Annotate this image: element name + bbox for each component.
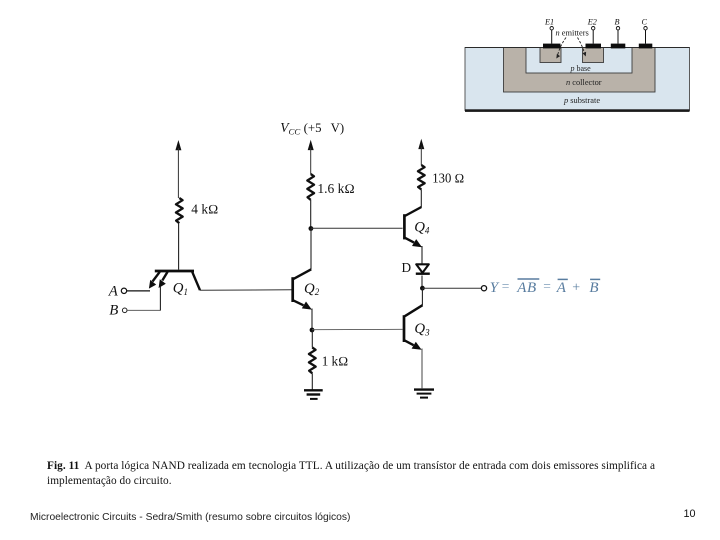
wire Q2 emitter down to node [311,309,313,331]
Q1 base bar [155,270,194,273]
label n collector [566,78,602,87]
svg-text:(+5: (+5 [304,121,322,135]
Q1 collector [192,272,200,290]
label Q4 [414,219,430,235]
ground symbol (Q3) [414,390,434,398]
surface line [465,47,690,49]
svg-text:B: B [615,17,620,26]
svg-text:p substrate: p substrate [563,96,600,105]
svg-text:Q2: Q2 [304,281,320,297]
svg-text:4 kΩ: 4 kΩ [191,201,218,216]
label Q1 [173,281,188,297]
input A terminal [108,283,150,299]
svg-text:B: B [109,302,118,318]
page number [684,508,696,520]
svg-text:1.6 kΩ: 1.6 kΩ [317,181,354,196]
lead wire B [616,27,619,44]
wire node down to Q2 collector [310,229,312,270]
svg-text:130 Ω: 130 Ω [432,170,464,185]
svg-text:V): V) [331,121,345,135]
n collector region [504,48,656,93]
footer [30,512,350,523]
svg-text:n emitters: n emitters [556,29,589,38]
output node junction [420,286,425,291]
label Q2 [304,281,320,297]
resistor 4 kOhm [176,198,183,223]
n emitter well 1 [540,48,561,63]
pointer arrow to emitter 2 [578,38,587,57]
contact pad C [639,44,653,49]
label Vcc rail arrow (1.6k) [308,140,314,174]
contact pad B [611,44,626,49]
lead wire E2 [592,27,595,44]
svg-text:p base: p base [570,64,592,73]
value label 1.6 kOhm [317,181,354,196]
p base region [526,48,632,74]
svg-text:E1: E1 [544,17,554,26]
wire node to 1k resistor [311,330,313,348]
svg-text:E2: E2 [587,17,597,26]
wire node to Q4 base [311,227,403,229]
wire node to output terminal [422,287,481,289]
Q3 collector [405,305,423,316]
label p base [570,64,592,73]
Q3 emitter with arrow [404,340,422,350]
pointer arrow to emitter 1 [556,38,566,59]
wire resistor to Q4 collector [420,189,422,207]
resistor 130 Ohm [418,165,425,189]
terminal label B [615,17,620,26]
input B terminal [109,302,160,318]
svg-text:1 kΩ: 1 kΩ [322,354,349,369]
Q2 collector [293,269,311,279]
resistor 1 kOhm [309,348,316,374]
Q2 base bar [291,277,294,302]
wire emitter2 to B [159,287,161,311]
svg-text:Q1: Q1 [173,281,188,297]
svg-text:C: C [642,17,648,26]
svg-text:D: D [402,260,412,275]
Q4 emitter with arrow [405,238,423,248]
label D [402,260,412,275]
vcc arrow output rail (130) [418,139,424,165]
svg-text:=: = [502,279,510,294]
output terminal circle [481,286,486,291]
svg-text:=: = [543,279,551,294]
wire Q3 emitter to ground [421,349,423,389]
diode D [416,264,430,273]
svg-text:B: B [589,280,598,296]
svg-text:Q3: Q3 [414,321,430,337]
svg-text:+: + [572,280,580,295]
terminal label E2 [587,17,597,26]
svg-text:AB: AB [516,280,537,296]
svg-text:n collector: n collector [566,78,602,87]
Q4 collector [405,207,422,216]
label Q3 [414,321,430,337]
lead wire E1 [550,27,553,44]
resistor 1.6 kOhm [307,174,314,200]
Q3 base bar [403,315,406,342]
Q2 emitter with arrow [293,300,312,309]
wire resistor to Q1 base [178,223,180,269]
svg-text:A: A [556,280,567,296]
Q4 base bar [403,214,406,239]
terminal label C [642,17,648,26]
ground symbol (1k) [304,390,323,399]
svg-text:A: A [108,283,119,299]
n emitter well 2 [583,48,604,63]
svg-text:Q4: Q4 [414,219,430,235]
contact pad E1 [543,44,561,49]
wire diode to output node [421,276,423,289]
label p substrate [563,96,600,105]
Q1 emitter 1 [149,272,160,289]
node junction (Q2 emitter / 1k / Q3 base) [310,328,315,333]
value label 4 kOhm [191,201,218,216]
wire resistor to node [310,200,312,228]
Q1 emitter 2 [159,272,168,288]
wire output node down to Q3 collector [421,288,423,305]
node junction (1.6k / Q2 collector / Q4 base) [309,226,314,231]
terminal label E1 [544,17,554,26]
value label 130 Ohm [432,170,464,185]
wire node to Q3 base [312,328,403,330]
p substrate region [465,48,690,112]
wire Q4 emitter to diode [421,246,423,264]
output equation Y = not(AB) = notA + notB [490,279,600,296]
lead wire C [644,27,647,44]
svg-text:VCC: VCC [280,120,300,137]
label Vcc (+5 V) [280,120,344,137]
label n emitters [556,29,589,38]
figure caption [47,459,707,490]
wire 1k to ground [311,373,313,389]
svg-text:Y: Y [490,280,500,296]
contact pad E2 [586,44,602,49]
vcc arrow input rail [175,140,181,198]
value label 1 kOhm [322,354,349,369]
wire Q1 collector to Q2 base [200,289,292,291]
